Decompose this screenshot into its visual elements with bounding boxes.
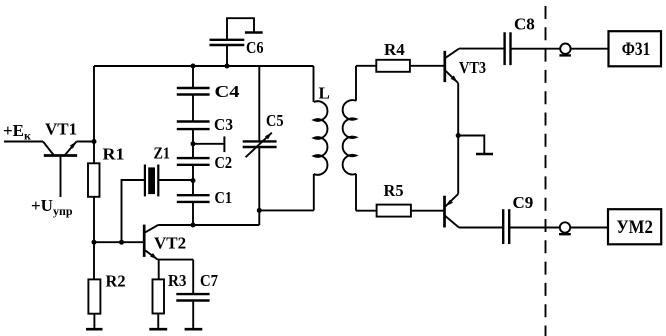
- wire connector to F31 box: [571, 48, 609, 50]
- transistor VT2 emitter: [144, 250, 158, 260]
- node A (VT1 emitter / R1 top): [92, 139, 97, 144]
- svg-text:C9: C9: [513, 193, 534, 212]
- wire C7 top lead: [192, 260, 194, 295]
- svg-text:C6: C6: [246, 38, 264, 57]
- tap stub between C3 and C2: [193, 136, 224, 152]
- svg-text:VT1: VT1: [45, 120, 77, 139]
- wire VT1 emitter to node A: [77, 141, 95, 143]
- capacitor C7: [176, 294, 209, 300]
- node J (tap junction on chain): [191, 141, 196, 146]
- transistor VT2 collector: [144, 225, 158, 233]
- wire VT2 emitter bus: [158, 259, 194, 261]
- svg-text:C8: C8: [514, 15, 535, 34]
- wire emitters vertical: [457, 83, 459, 194]
- wire VT3 collector to C8: [459, 48, 505, 50]
- transistor VT3 emitter: [445, 70, 458, 83]
- node I (emitter / ground branch): [456, 133, 461, 138]
- wire chain segment C1 to bottom bus: [192, 202, 194, 225]
- wire ground branch: [458, 136, 484, 155]
- transistor VT1 collector: [43, 142, 54, 156]
- wire secondary bottom to R5: [356, 210, 377, 212]
- capacitor C9: [503, 209, 509, 244]
- connector X2: [559, 222, 571, 234]
- svg-text:C4: C4: [215, 82, 241, 101]
- transistor VT1 base bar: [44, 154, 77, 157]
- svg-text:C5: C5: [266, 111, 284, 130]
- wire R5 to lower transistor base: [411, 210, 444, 212]
- wire L bottom lead: [313, 174, 315, 210]
- svg-text:R1: R1: [103, 145, 125, 164]
- transistor VT1 emitter arrow: [70, 142, 77, 149]
- svg-text:C7: C7: [200, 271, 218, 290]
- node B (R1 bottom / VT2 base bus): [92, 240, 97, 245]
- wire connector to UM2 box: [571, 227, 608, 229]
- wire C6 bottom lead: [226, 45, 228, 66]
- wire C5 bottom lead: [258, 147, 260, 225]
- wire chain segment bus to C4: [192, 66, 194, 88]
- transistor VT2 base bar: [143, 225, 146, 257]
- wire chain segment C3 to C2: [192, 129, 194, 158]
- node G (C6 on top bus): [225, 64, 230, 69]
- svg-text:R4: R4: [384, 40, 405, 59]
- wire R3 to ground: [157, 314, 159, 330]
- wire C9 to connector: [509, 227, 560, 229]
- svg-text:L: L: [319, 84, 330, 103]
- svg-text:+Uупр: +Uупр: [31, 196, 73, 218]
- transistor Q2 base bar (lower): [443, 196, 446, 228]
- svg-text:Ф31: Ф31: [622, 39, 651, 60]
- inductor L (primary): [314, 101, 328, 175]
- wire chain segment C2 to C1: [192, 165, 194, 195]
- svg-text:УМ2: УМ2: [616, 217, 653, 238]
- svg-text:R3: R3: [168, 271, 187, 290]
- resistor R4: [376, 60, 410, 72]
- transistor Q2 emitter: [445, 194, 458, 207]
- resistor R3: [153, 279, 165, 313]
- svg-text:C2: C2: [215, 153, 233, 172]
- wire secondary bottom lead: [355, 174, 357, 211]
- svg-text:C3: C3: [214, 115, 233, 134]
- transistor VT3 emitter arrow: [451, 75, 458, 82]
- ground under R3: [149, 328, 167, 331]
- svg-text:R5: R5: [384, 181, 404, 200]
- crystal Z1: [145, 165, 158, 197]
- resistor R2: [88, 279, 100, 313]
- capacitor C8: [505, 32, 511, 65]
- svg-text:+Eк: +Eк: [3, 121, 31, 143]
- wire R1 bottom to base bus: [93, 197, 95, 243]
- ground (emitter return): [476, 153, 493, 155]
- node F (chain bottom): [191, 223, 196, 228]
- wire top bus: [94, 65, 314, 67]
- capacitor C3: [177, 122, 210, 130]
- capacitor C1: [177, 195, 210, 202]
- wire Z1 left lead: [122, 180, 145, 242]
- transistor VT3 base bar: [443, 51, 446, 82]
- wire bottom bus (VT2 collector to C5 line): [158, 224, 259, 226]
- connector X1: [559, 44, 571, 56]
- dashed boundary line: [545, 0, 547, 336]
- block F31: [609, 31, 662, 66]
- transistor VT2 emitter arrow: [150, 253, 157, 259]
- wire VT1 base lead: [60, 156, 62, 198]
- wire secondary top lead: [355, 66, 357, 101]
- svg-text:R2: R2: [106, 272, 126, 291]
- capacitor C5 (variable): [243, 141, 277, 147]
- wire R2 top lead: [93, 242, 95, 279]
- transistor VT1 emitter: [65, 142, 77, 156]
- wire left rail upper: [93, 66, 95, 142]
- wire C5 top lead: [258, 66, 260, 141]
- ground under R2: [86, 328, 103, 331]
- node H (C5 / L bottom wire): [257, 208, 262, 213]
- wire VT2 base bus: [94, 241, 143, 243]
- wire R4 to VT3 base: [410, 65, 444, 67]
- arrow of variable capacitor C5: [246, 133, 272, 158]
- inductor secondary winding: [343, 100, 356, 174]
- chassis stub bar of C6: [245, 31, 263, 33]
- wire Z1 right lead: [158, 179, 193, 181]
- wire C7 to ground: [192, 301, 194, 330]
- transistor Q2 collector: [445, 215, 459, 227]
- block UM2: [608, 209, 661, 244]
- wire R3 top lead: [158, 260, 160, 280]
- svg-text:Z1: Z1: [154, 144, 171, 163]
- capacitor C2: [177, 158, 210, 165]
- node D (Z1 / C2-C1 junction): [191, 178, 196, 183]
- wire secondary top to R4: [356, 65, 376, 67]
- node C (Z1 branch on base bus): [119, 240, 124, 245]
- transistor Q2 emitter arrow: [446, 200, 453, 207]
- ground under C7: [185, 328, 203, 331]
- wire Q2 collector to C9: [459, 227, 503, 229]
- wire R1 top lead: [93, 142, 95, 164]
- wire L top lead: [313, 66, 315, 102]
- resistor R5: [377, 205, 411, 217]
- wire C8 to connector: [511, 48, 561, 50]
- wire L bottom link: [259, 209, 314, 211]
- capacitor C4: [177, 88, 210, 95]
- svg-text:VT2: VT2: [154, 234, 186, 253]
- svg-text:VT3: VT3: [459, 58, 486, 77]
- wire chain segment C4 to C3: [192, 95, 194, 122]
- svg-text:C1: C1: [215, 188, 233, 207]
- capacitor C6: [210, 40, 245, 45]
- transistor VT3 collector: [445, 49, 459, 59]
- wire +Ek lead: [4, 141, 43, 143]
- wire C6 top loop: [227, 18, 254, 40]
- node E (chain top on bus): [191, 64, 196, 69]
- wire R2 to ground: [93, 314, 95, 330]
- resistor R1: [88, 163, 100, 197]
